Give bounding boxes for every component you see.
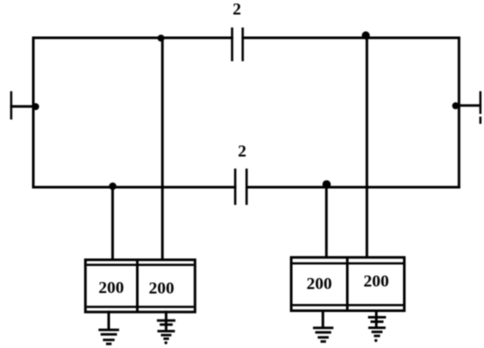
svg-text:2: 2 [233,0,242,19]
svg-text:200: 200 [306,274,332,293]
svg-text:2: 2 [238,142,247,161]
svg-text:200: 200 [149,279,175,298]
svg-text:200: 200 [99,278,125,297]
svg-text:200: 200 [364,271,390,290]
